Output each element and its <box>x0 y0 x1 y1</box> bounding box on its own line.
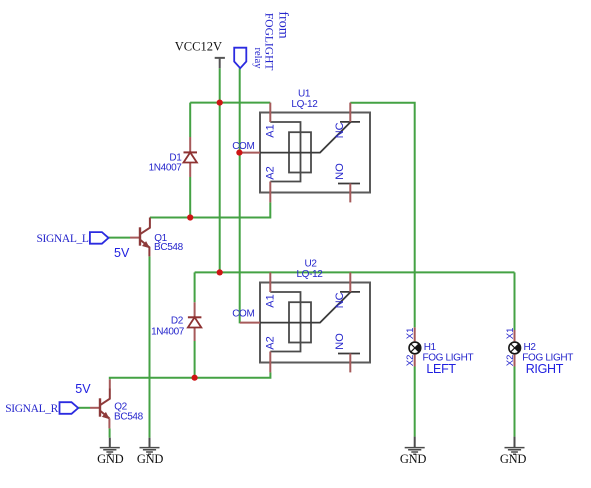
Q1 collector <box>140 218 150 235</box>
wire top horizontal VCC to U1 A1 <box>190 102 270 104</box>
U1 coil rect <box>289 132 311 172</box>
U1 box <box>260 113 370 193</box>
lamp H2 <box>505 328 573 376</box>
diode D2 <box>151 302 201 341</box>
junction D1/collector wire <box>187 214 193 220</box>
junction U1 COM <box>236 150 242 156</box>
svg-text:A1: A1 <box>265 124 277 137</box>
U2 internal A1-A2 loop <box>270 292 300 352</box>
Q2 emitter arrow <box>102 412 110 419</box>
D2 cathode bar <box>188 316 202 318</box>
svg-text:relay: relay <box>252 48 263 70</box>
svg-text:A2: A2 <box>265 166 277 179</box>
Q1 base pin <box>130 237 139 239</box>
svg-text:X2: X2 <box>405 355 416 367</box>
U2 box <box>260 283 370 363</box>
U2 coil rect <box>289 302 311 342</box>
transistor Q2 <box>90 379 144 428</box>
svg-text:LEFT: LEFT <box>426 362 456 376</box>
svg-text:GND: GND <box>97 452 124 466</box>
svg-text:X2: X2 <box>505 355 516 367</box>
svg-text:COM: COM <box>232 141 254 152</box>
ground H1 <box>400 437 427 466</box>
svg-text:X1: X1 <box>405 328 416 340</box>
wire VCC rail vertical <box>219 68 221 272</box>
svg-text:A2: A2 <box>265 336 277 349</box>
diode D1 <box>149 137 197 177</box>
U1 pin NO <box>349 184 351 203</box>
svg-text:H1: H1 <box>424 342 437 353</box>
wire from FOGLIGHT relay to U2 COM <box>239 68 242 322</box>
Q2 collector <box>100 389 110 406</box>
D1 cathode bar <box>184 151 198 153</box>
wire H2 vertical <box>514 272 516 330</box>
U2 NO bar <box>338 353 360 355</box>
power symbol VCC12V <box>215 58 225 68</box>
U2 pin A1 <box>269 272 271 292</box>
D1 triangle <box>184 152 197 162</box>
wire D2 top <box>194 272 196 302</box>
svg-text:1N4007: 1N4007 <box>151 326 185 337</box>
H2 bulb circle <box>509 342 521 354</box>
svg-text:LQ-12: LQ-12 <box>291 99 318 110</box>
wire Q2 emitter to GND <box>109 428 111 437</box>
U1 NC bar <box>340 121 360 123</box>
lamp H1 <box>405 327 473 376</box>
Q2 base bar <box>99 398 101 416</box>
ground Q1 emitter <box>137 438 164 466</box>
D2 triangle <box>188 317 201 327</box>
svg-text:RIGHT: RIGHT <box>526 362 564 376</box>
svg-text:SIGNAL_L: SIGNAL_L <box>36 233 88 245</box>
wire D2 bottom <box>194 341 196 378</box>
svg-text:NO: NO <box>334 333 346 350</box>
H1 pin X1 <box>414 327 416 341</box>
svg-text:D2: D2 <box>171 316 184 327</box>
U2 internal COM line and contact arm <box>260 292 351 323</box>
wire D1 bottom <box>189 177 191 218</box>
svg-text:1N4007: 1N4007 <box>149 163 183 174</box>
junction D2/Q2 collector wire <box>192 375 198 381</box>
wire H2 bottom to GND <box>514 367 516 437</box>
wire D1 top <box>189 103 191 137</box>
connector SIGNAL_R <box>60 402 79 414</box>
svg-text:H2: H2 <box>524 342 537 353</box>
svg-text:GND: GND <box>400 452 427 466</box>
svg-text:GND: GND <box>500 452 527 466</box>
U2 NC bar <box>340 291 360 293</box>
wire SIGNAL_R to Q2 base <box>78 407 90 409</box>
D2 anode pin <box>194 328 196 341</box>
U1 pin A1 <box>269 103 271 122</box>
svg-text:FOGLIGHT: FOGLIGHT <box>263 13 275 71</box>
svg-text:5V: 5V <box>114 246 130 260</box>
D2 cathode pin <box>194 302 196 317</box>
ground H2 <box>500 437 527 466</box>
U1 pin NC <box>349 103 351 122</box>
H1 pin X2 <box>414 355 416 367</box>
wire Q2 collector horizontal to U2 A2 <box>110 372 271 379</box>
D1 anode pin <box>189 163 191 177</box>
Q1 emitter arrow <box>142 241 150 248</box>
wire Q1 emitter to GND <box>149 256 151 437</box>
svg-text:A1: A1 <box>265 294 277 307</box>
wire mid horizontal D2 to H2 <box>195 271 515 273</box>
wire SIGNAL_L to Q1 base <box>109 237 131 239</box>
Q1 base bar <box>139 227 141 245</box>
svg-text:NC: NC <box>334 122 346 138</box>
H1 bulb circle <box>409 342 421 354</box>
U2 pin A2 <box>269 352 271 373</box>
Q1 emitter <box>140 240 149 257</box>
svg-text:from: from <box>276 11 291 38</box>
svg-text:SIGNAL_R: SIGNAL_R <box>5 403 58 415</box>
relay U2 <box>232 259 370 373</box>
U2 pin NC <box>349 272 351 292</box>
svg-text:GND: GND <box>137 452 164 466</box>
U1 NO bar <box>338 183 360 185</box>
wire U1 NC to H1 <box>350 103 414 328</box>
H2 pin X1 <box>514 330 516 341</box>
junction VCC rail/mid wire <box>217 269 223 275</box>
U2 pin NO <box>349 354 351 373</box>
U1 internal COM line and contact arm <box>260 122 351 153</box>
svg-text:5V: 5V <box>75 382 91 396</box>
svg-text:NO: NO <box>334 163 346 180</box>
connector from FOGLIGHT relay <box>234 48 246 68</box>
svg-text:COM: COM <box>232 308 254 319</box>
H2 pin X2 <box>514 355 516 367</box>
relay U1 <box>232 89 370 203</box>
U1 internal A1-A2 loop <box>270 122 300 182</box>
Q2 base pin <box>90 407 99 409</box>
Q2 emitter <box>100 411 109 419</box>
D1 cathode pin <box>189 137 191 152</box>
junction VCC/top wire <box>217 100 223 106</box>
U1 pin A2 <box>269 182 271 203</box>
transistor Q1 <box>130 218 184 257</box>
U1 pin COM <box>239 152 260 154</box>
svg-text:LQ-12: LQ-12 <box>296 269 323 280</box>
svg-text:VCC12V: VCC12V <box>175 40 222 54</box>
wire H1 bottom to GND <box>414 367 416 437</box>
U2 pin COM <box>240 322 260 324</box>
svg-text:NC: NC <box>334 292 346 308</box>
wire Q1 collector to U1 A2 <box>150 202 270 217</box>
svg-text:BC548: BC548 <box>114 411 144 422</box>
connector SIGNAL_L <box>90 232 109 244</box>
ground Q2 <box>97 438 124 466</box>
svg-text:X1: X1 <box>505 328 516 340</box>
svg-text:BC548: BC548 <box>154 242 184 253</box>
